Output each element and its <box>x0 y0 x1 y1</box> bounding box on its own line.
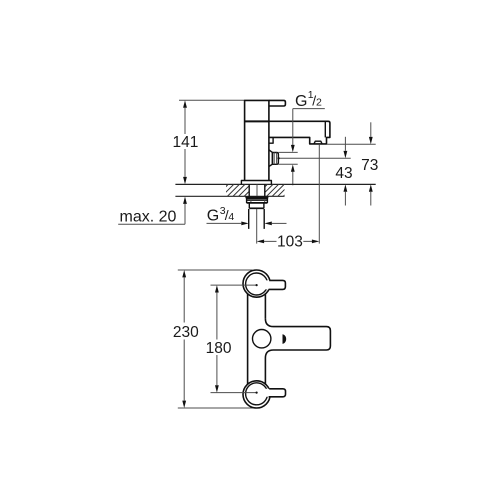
dimension 73 upper arrow <box>370 122 372 137</box>
spout end cap seam <box>324 122 326 138</box>
G 3/4 right arrow <box>272 222 287 224</box>
diverter knob (plan view) <box>253 330 271 348</box>
dimension 141 line lower <box>184 149 186 177</box>
body bar left edge <box>247 294 249 385</box>
spout (plan view) with fillets <box>265 319 330 358</box>
faucet body (side view) <box>245 100 269 180</box>
threaded shank left edge <box>248 184 250 196</box>
outlet top line <box>278 151 297 153</box>
max. 20 arrow <box>183 197 187 204</box>
G 1/2 label <box>295 89 322 110</box>
spout (side view) <box>269 121 330 144</box>
dimension 230 line <box>183 277 185 400</box>
diverter knob <box>272 153 278 165</box>
dimension 180 bottom extension line <box>211 392 257 394</box>
G 1/2 dimension upper arrow <box>292 109 294 146</box>
G 1/2 dimension lower arrow <box>292 172 294 186</box>
top handle outer circle <box>243 270 270 297</box>
svg-text:141: 141 <box>172 134 198 151</box>
dimension 180 top extension line <box>211 284 257 286</box>
body bar right edge upper <box>264 294 266 319</box>
deck top line <box>175 183 375 185</box>
bottom lever (plan view) <box>264 389 286 397</box>
shank centre line <box>256 184 258 196</box>
outlet centre line (43 extension) <box>278 157 350 159</box>
threaded shank right edge <box>264 184 266 196</box>
dimension 141 line upper <box>184 108 186 134</box>
svg-text:G: G <box>295 93 307 110</box>
deck bottom line <box>175 195 284 197</box>
knob seam line <box>276 153 278 165</box>
diverter escutcheon <box>269 150 273 167</box>
mounting nut <box>247 200 268 203</box>
svg-text:max. 20: max. 20 <box>120 208 177 225</box>
dimension 43 upper arrow <box>344 137 346 151</box>
dimension 230 bottom extension line <box>178 407 253 409</box>
svg-text:43: 43 <box>335 165 352 182</box>
dimension 103 line <box>264 240 312 242</box>
deck hatching <box>215 184 296 198</box>
outlet bottom line <box>278 163 297 165</box>
svg-text:2: 2 <box>316 97 322 109</box>
G 3/4 left arrow <box>207 222 242 224</box>
bottom handle inner circle <box>246 383 268 405</box>
svg-text:230: 230 <box>173 324 199 341</box>
svg-text:73: 73 <box>361 157 378 174</box>
aerator extension line <box>318 144 320 243</box>
washer <box>245 196 268 198</box>
aerator mark (plan view) <box>283 334 287 344</box>
lever handle (side view) <box>269 100 286 106</box>
dimension 180 line <box>216 293 218 386</box>
top handle inner circle <box>246 273 268 295</box>
centre line of tailpiece <box>256 209 258 244</box>
coupling below nut <box>249 203 264 208</box>
svg-text:180: 180 <box>206 340 232 357</box>
dimension 230 top extension line <box>178 269 253 271</box>
base flange <box>241 181 271 185</box>
knob knurl line <box>273 153 275 165</box>
body bar right edge lower <box>264 358 266 384</box>
bottom handle outer circle <box>243 381 270 408</box>
svg-text:103: 103 <box>277 233 303 250</box>
friction ring <box>247 198 268 200</box>
svg-text:4: 4 <box>228 211 234 223</box>
svg-text:G: G <box>207 208 219 225</box>
dimension 43 lower arrow <box>344 192 346 206</box>
top lever (plan view) <box>264 280 285 289</box>
body casting line <box>245 120 269 122</box>
junction dot <box>277 157 279 159</box>
G 3/4 tailpiece <box>249 209 265 229</box>
boss under spout <box>269 137 273 143</box>
aerator insert <box>314 141 322 144</box>
dimension 73 extension line <box>327 143 376 145</box>
G 1/2 leader line <box>293 108 325 110</box>
max. 20 leader <box>118 204 185 224</box>
dimension 73 lower arrow <box>370 192 372 206</box>
extension line top of faucet <box>179 99 245 101</box>
G 3/4 label <box>207 205 235 225</box>
